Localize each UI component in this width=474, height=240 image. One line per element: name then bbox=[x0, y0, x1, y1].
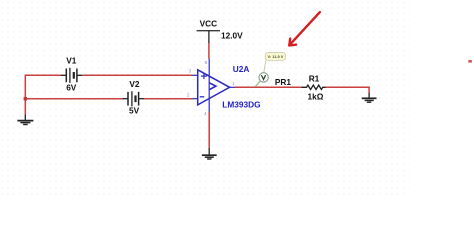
svg-text:12.0V: 12.0V bbox=[221, 31, 243, 41]
svg-text:LM393DG: LM393DG bbox=[222, 99, 260, 109]
svg-text:VCC: VCC bbox=[200, 19, 218, 29]
svg-text:6V: 6V bbox=[66, 83, 77, 93]
svg-text:V1: V1 bbox=[66, 55, 77, 65]
svg-text:R1: R1 bbox=[309, 73, 320, 83]
svg-text:V: 11.9 V: V: 11.9 V bbox=[268, 54, 284, 59]
svg-text:PR1: PR1 bbox=[275, 77, 292, 87]
svg-text:U2A: U2A bbox=[233, 64, 250, 74]
svg-text:1kΩ: 1kΩ bbox=[308, 92, 324, 102]
svg-text:V2: V2 bbox=[129, 79, 140, 89]
svg-text:5V: 5V bbox=[129, 106, 140, 116]
